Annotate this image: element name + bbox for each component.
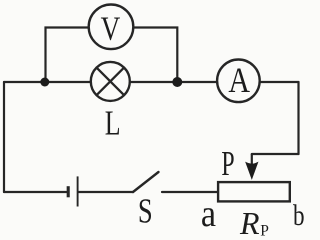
wire voltmeter branch right <box>134 28 177 83</box>
svg-text:S: S <box>138 191 153 230</box>
wire bottom left to battery <box>4 191 67 193</box>
svg-text:R: R <box>239 205 260 240</box>
battery B1 negative plate (short thick) <box>67 186 70 197</box>
wiper arrow P head <box>246 162 258 179</box>
wire main row left segment <box>4 81 90 83</box>
node junction dot left <box>40 78 49 87</box>
rheostat RP body <box>218 182 290 201</box>
svg-text:P: P <box>221 145 234 184</box>
node junction dot right <box>172 77 182 87</box>
wire right vertical down <box>297 82 299 154</box>
svg-text:V: V <box>101 10 121 48</box>
wire lamp to ammeter <box>131 81 216 83</box>
switch S blade <box>133 172 159 192</box>
wire voltmeter branch left <box>46 28 88 83</box>
wire switch to rheostat terminal a <box>162 191 218 193</box>
wiper arrow P shaft <box>251 154 253 165</box>
lamp L circle <box>91 62 130 101</box>
wire battery to switch <box>79 191 134 193</box>
lamp L cross <box>97 68 125 96</box>
svg-text:A: A <box>228 61 250 100</box>
svg-text:b: b <box>293 198 305 232</box>
svg-text:a: a <box>201 192 216 234</box>
svg-text:L: L <box>105 104 121 143</box>
wire to wiper arrow <box>252 153 299 155</box>
battery B1 positive plate (long thin) <box>77 176 79 206</box>
wire left vertical <box>3 82 5 192</box>
voltmeter V circle <box>89 5 134 50</box>
ammeter A circle <box>217 60 260 103</box>
svg-text:P: P <box>260 223 269 240</box>
wire ammeter to right corner <box>261 81 299 83</box>
